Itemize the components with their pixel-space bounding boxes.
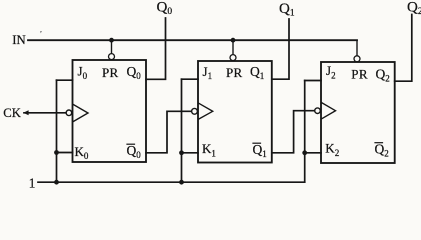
node: junction IN to U2 PR — [231, 38, 236, 43]
U3 PR bubble — [354, 56, 360, 62]
U3 clock bubble — [315, 108, 321, 114]
svg-text:PR: PR — [102, 65, 119, 80]
svg-text:Q1: Q1 — [250, 64, 264, 81]
U3 pin label K2 — [325, 141, 339, 158]
svg-text:CK: CK — [3, 106, 21, 120]
svg-text:J0: J0 — [78, 64, 88, 81]
wire IN to U3 PR — [356, 40, 358, 55]
wire IN to U2 PR — [232, 40, 234, 54]
wire net3 to U3 J2 — [305, 80, 321, 82]
U2 pin label K1 — [202, 141, 216, 158]
node: junction net2 K1 — [179, 150, 184, 155]
wire net1 riser (J0/K0 tie to logic 1) — [56, 80, 58, 182]
U3 clock triangle — [322, 103, 336, 119]
svg-text:K2: K2 — [325, 141, 339, 158]
U2 pin label J1 — [203, 64, 213, 81]
U2 clock bubble — [192, 108, 198, 114]
svg-text:PR: PR — [351, 67, 368, 82]
wire IN to U1 PR — [111, 40, 113, 53]
svg-text:Q0: Q0 — [127, 143, 142, 160]
node: junction IN to U1 PR — [109, 38, 114, 43]
flip-flop U1 box — [73, 60, 147, 162]
flip-flop U3 box — [321, 62, 395, 163]
wire U3 Q2 to label — [395, 15, 412, 82]
label IN — [12, 33, 26, 47]
svg-text:1: 1 — [29, 175, 36, 190]
U1 pin label Q0 — [127, 64, 142, 81]
wire net3 to U3 K2 — [305, 152, 321, 154]
U3 pin label Q2 — [376, 67, 390, 84]
wire IN bus — [28, 39, 357, 41]
wire net3 riser (J2/K2 tie to logic 1) — [304, 81, 306, 183]
wire net2 riser (J1/K1 tie to logic 1) — [181, 79, 183, 182]
U1 pin label PR — [102, 65, 119, 80]
node: junction net2 bottom — [179, 180, 184, 185]
U3 pin label J2 — [326, 63, 336, 80]
svg-text:Q0: Q0 — [157, 0, 173, 17]
U3 pin label Q2bar — [375, 142, 389, 159]
svg-text:Q0: Q0 — [127, 64, 142, 81]
U2 PR bubble — [230, 55, 236, 61]
svg-text:J1: J1 — [203, 64, 213, 81]
label logic 1 — [29, 175, 36, 190]
U2 pin label Q1bar — [253, 142, 267, 159]
label Q2 output — [407, 0, 421, 17]
node: junction net3 K2 — [302, 150, 307, 155]
label Q0 output — [157, 0, 173, 17]
svg-text:K1: K1 — [202, 141, 216, 158]
U1 pin label K0 — [75, 144, 89, 161]
U1 pin label J0 — [78, 64, 88, 81]
wire U1 Q0bar to U2 clock — [146, 111, 191, 153]
wire CK to U1 clock — [23, 110, 66, 115]
svg-text:Q1: Q1 — [253, 142, 267, 159]
label CK — [3, 106, 21, 120]
scan speck — [40, 31, 42, 33]
node: junction net1 K0 — [54, 150, 59, 155]
U1 PR bubble — [109, 54, 115, 60]
wire logic-1 bottom bus — [38, 181, 305, 183]
node: junction net1 bottom — [54, 180, 59, 185]
wire U2 Q1 to label — [272, 19, 289, 79]
wire net2 to U2 K1 — [182, 152, 199, 154]
wire U1 Q0 to label — [146, 18, 166, 79]
U3 pin label PR — [351, 67, 368, 82]
U2 clock triangle — [199, 103, 213, 119]
wire net2 to U2 J1 — [182, 78, 199, 80]
U2 pin label Q1 — [250, 64, 264, 81]
svg-text:Q1: Q1 — [279, 1, 295, 19]
wire net1 to U1 J0 — [57, 79, 73, 81]
wire net1 to U1 K0 — [57, 152, 73, 154]
flip-flop U2 box — [198, 61, 272, 163]
U1 clock bubble — [66, 110, 72, 116]
svg-text:K0: K0 — [75, 144, 89, 161]
U1 pin label Q0bar — [127, 143, 142, 160]
label Q1 output — [279, 1, 295, 19]
wire U2 Q1bar to U3 clock — [272, 111, 315, 153]
U2 pin label PR — [226, 65, 243, 80]
svg-text:Q2: Q2 — [407, 0, 421, 17]
svg-text:Q2: Q2 — [375, 142, 389, 159]
svg-text:PR: PR — [226, 65, 243, 80]
U1 clock triangle — [73, 105, 88, 122]
svg-text:IN: IN — [12, 33, 26, 47]
svg-text:J2: J2 — [326, 63, 336, 80]
svg-text:Q2: Q2 — [376, 67, 390, 84]
